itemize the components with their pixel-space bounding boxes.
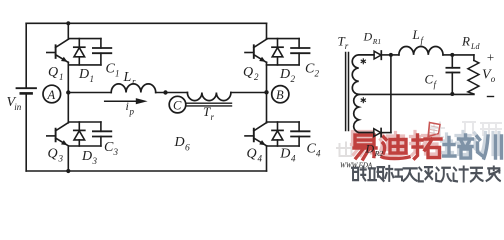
svg-text:D: D <box>78 67 89 82</box>
diode D3 <box>74 122 85 146</box>
svg-text:r: r <box>132 77 136 87</box>
svg-text:in: in <box>14 102 22 112</box>
wire right leg segments <box>266 23 268 171</box>
svg-text:C: C <box>106 61 116 76</box>
wire Q4 cell top <box>267 121 300 123</box>
svg-text:1: 1 <box>59 72 64 82</box>
label C3 <box>104 140 119 157</box>
transistor Q2 <box>245 39 267 62</box>
svg-text:p: p <box>129 107 135 117</box>
svg-text:2: 2 <box>254 72 259 82</box>
capacitor C1 <box>93 39 111 65</box>
transistor Q3 <box>47 123 69 146</box>
diode DR1 <box>374 51 391 59</box>
capacitor C2 <box>291 39 309 65</box>
wire inductor to primary <box>156 92 188 94</box>
transistor Q4 <box>245 123 267 146</box>
svg-text:+: + <box>486 50 495 65</box>
svg-text:D: D <box>365 142 375 156</box>
svg-text:o: o <box>491 74 496 84</box>
diode D2 <box>272 39 283 65</box>
transformer secondary lower winding <box>354 94 374 132</box>
label Lf <box>412 27 425 46</box>
svg-text:1: 1 <box>90 74 95 84</box>
node junction dot bottom of left leg <box>66 169 70 173</box>
wire top rail <box>26 22 266 24</box>
svg-text:D: D <box>279 147 290 162</box>
label minus <box>488 96 494 98</box>
junction dot rectifier output <box>389 53 393 57</box>
wire Q3 cell bottom <box>68 145 101 147</box>
svg-text:4: 4 <box>316 149 321 159</box>
node A junction dot <box>66 90 70 94</box>
svg-text:f: f <box>434 80 438 90</box>
wire left leg segments <box>67 23 69 171</box>
polarity dot lower <box>361 98 365 103</box>
capacitor Cf <box>446 55 459 94</box>
label D3 <box>81 149 98 166</box>
wire Q1 cell bottom <box>68 64 101 66</box>
wire Q3 cell top <box>68 121 101 123</box>
svg-text:D: D <box>174 135 185 150</box>
svg-text:Q: Q <box>48 147 58 162</box>
svg-text:A: A <box>47 88 56 102</box>
battery Vin <box>17 23 37 171</box>
svg-text:L: L <box>412 27 420 42</box>
watermark gray slogan row <box>352 166 500 181</box>
transistor Q1 <box>47 39 69 62</box>
svg-text:Q: Q <box>247 147 257 162</box>
label Q3 <box>48 147 64 164</box>
svg-text:3: 3 <box>58 154 64 164</box>
wire output top <box>452 54 474 56</box>
label DR2 <box>365 142 384 158</box>
svg-text:C: C <box>104 140 114 155</box>
arrow ip <box>105 98 148 104</box>
svg-text:4: 4 <box>291 154 296 164</box>
wire primary to node B <box>231 92 267 94</box>
wire bottom rail <box>26 170 266 172</box>
svg-text:6: 6 <box>185 144 190 154</box>
svg-text:B: B <box>276 88 284 102</box>
capacitor C3 <box>93 122 111 146</box>
svg-text:Ld: Ld <box>470 42 480 51</box>
svg-text:f: f <box>421 36 425 46</box>
junction dot before primary <box>163 90 167 94</box>
svg-text:3: 3 <box>92 156 98 166</box>
watermark faint gray glyphs <box>337 122 501 156</box>
inductor Lr <box>111 84 156 93</box>
svg-text:1: 1 <box>115 68 120 78</box>
label D4 <box>279 147 296 164</box>
svg-text:3: 3 <box>113 147 119 157</box>
svg-text:R2: R2 <box>374 149 384 158</box>
svg-text:2: 2 <box>315 68 320 78</box>
node B junction dot <box>264 90 268 94</box>
label C1 <box>106 61 120 78</box>
label Q2 <box>243 65 259 82</box>
svg-text:C: C <box>307 142 317 157</box>
svg-text:C: C <box>425 72 434 87</box>
svg-text:i: i <box>126 99 129 113</box>
junction dot Cf bottom <box>450 92 454 96</box>
watermark red text yiditu peixun <box>354 135 502 159</box>
wire output bottom rail / center tap <box>359 93 474 95</box>
node junction dot top of left leg <box>66 21 70 25</box>
resistor RLd <box>468 55 479 94</box>
node C circle label <box>169 96 186 113</box>
label Cf <box>425 72 438 90</box>
node A circle label <box>43 85 61 103</box>
node B circle label <box>272 86 289 103</box>
wire Q2 cell bottom <box>267 64 300 66</box>
svg-text:D: D <box>81 149 92 164</box>
label Tr secondary <box>338 34 349 52</box>
polarity dot upper <box>361 59 365 64</box>
watermark red text shadow <box>352 132 500 156</box>
label Tr primary <box>203 104 215 122</box>
svg-text:D: D <box>363 30 373 44</box>
label Vo <box>482 68 496 85</box>
diode DR2 <box>374 129 391 137</box>
label D1 <box>78 67 94 84</box>
label Lr <box>123 70 137 87</box>
label Q1 <box>48 65 64 82</box>
svg-text:L: L <box>123 70 132 85</box>
label D2 <box>279 67 296 84</box>
transformer primary winding Tr <box>187 93 231 101</box>
svg-text:r: r <box>345 41 349 51</box>
svg-text:r: r <box>211 112 215 122</box>
wire DR2 cathode riser <box>390 55 392 133</box>
label Vin <box>7 95 22 112</box>
diode D4 <box>272 122 283 146</box>
wire node A to inductor <box>68 92 111 94</box>
label Q4 <box>247 147 263 164</box>
svg-text:2: 2 <box>291 74 296 84</box>
svg-text:Q: Q <box>48 65 58 80</box>
transformer secondary upper winding <box>352 55 374 94</box>
svg-text:R1: R1 <box>372 37 381 46</box>
svg-text:C: C <box>305 61 315 76</box>
svg-text:D: D <box>279 67 290 82</box>
capacitor C4 <box>291 122 309 146</box>
junction dot Cf top <box>450 53 454 57</box>
label C4 <box>307 142 322 159</box>
label plus <box>486 50 495 65</box>
wire Q2 cell top <box>267 38 300 40</box>
inductor Lf <box>391 46 452 54</box>
svg-text:4: 4 <box>258 154 263 164</box>
label DR1 <box>363 30 382 46</box>
wire Q4 cell bottom <box>267 145 300 147</box>
label RLd <box>461 34 480 51</box>
label D6 <box>174 135 191 154</box>
svg-text:Q: Q <box>243 65 253 80</box>
transformer secondary core lines <box>346 53 349 131</box>
watermark red flag logo <box>428 123 440 138</box>
svg-text:C: C <box>173 98 182 112</box>
wire Q1 cell top <box>68 38 101 40</box>
diode D1 <box>74 39 85 65</box>
label C2 <box>305 61 320 78</box>
transformer primary core lines <box>187 103 232 106</box>
svg-text:R: R <box>461 34 470 49</box>
label ip <box>126 99 135 117</box>
